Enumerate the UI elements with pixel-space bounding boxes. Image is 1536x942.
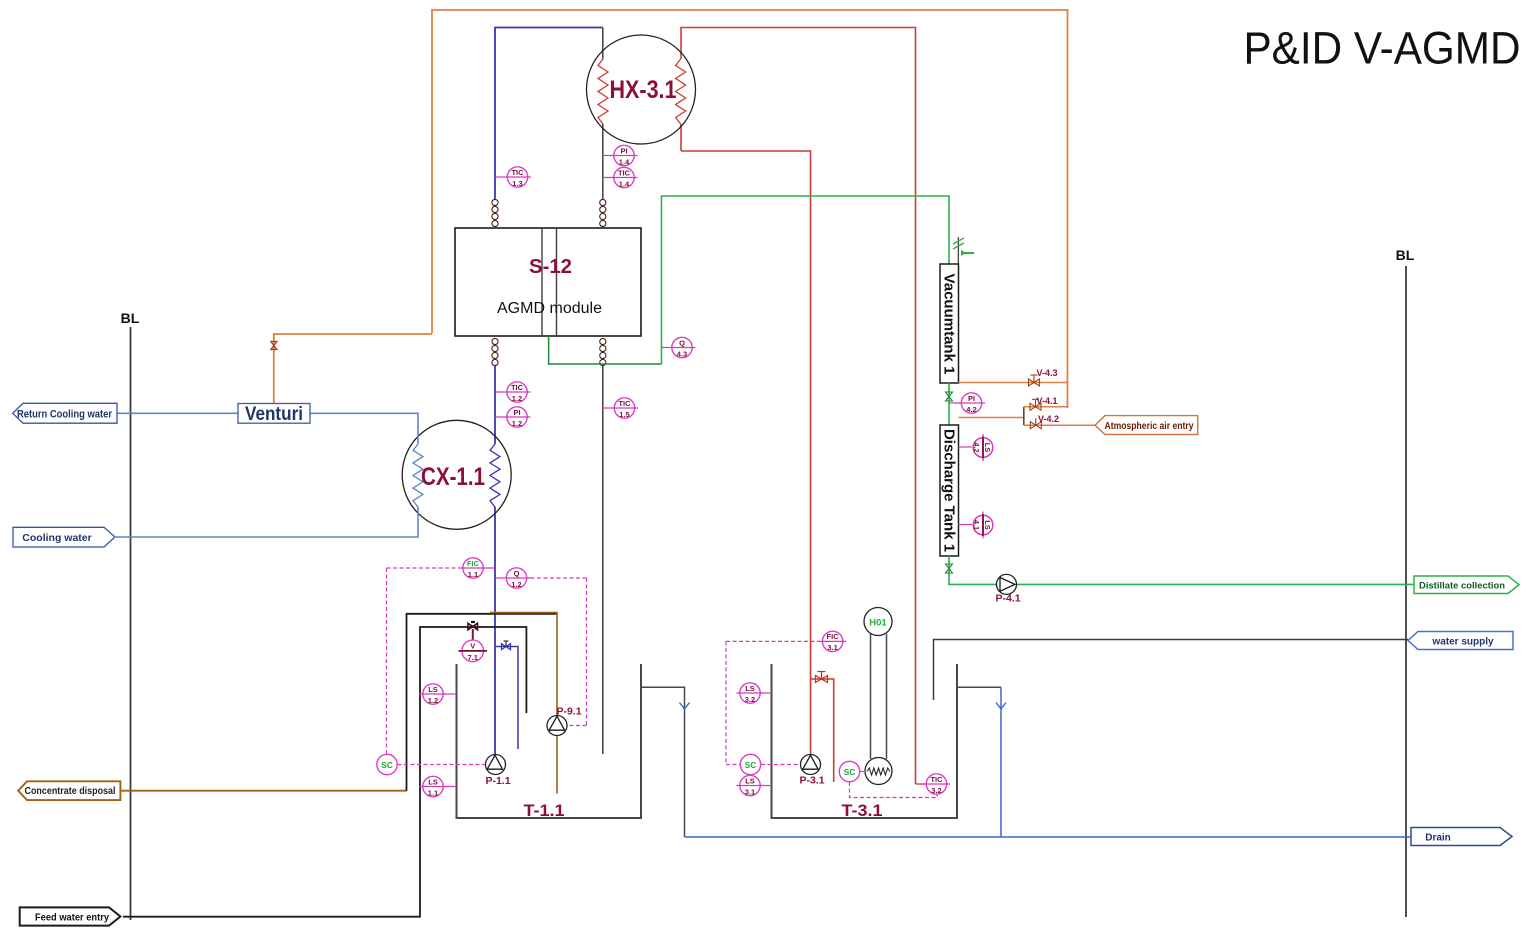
svg-text:Discharge Tank 1: Discharge Tank 1: [941, 429, 958, 552]
svg-text:TIC: TIC: [618, 399, 631, 408]
vacuum vent symbol: [953, 237, 974, 264]
svg-text:3.2: 3.2: [931, 786, 941, 795]
instrument LS 1.1: [420, 776, 457, 797]
node flow arrow T-1.1 overflow: [680, 703, 690, 710]
flag Return Cooling water: [13, 403, 117, 423]
svg-text:PI: PI: [620, 146, 627, 155]
instrument SC heater controller 3: [839, 761, 865, 781]
svg-text:FIC: FIC: [467, 559, 480, 568]
svg-text:CX-1.1: CX-1.1: [421, 463, 485, 491]
svg-text:P-9.1: P-9.1: [556, 706, 581, 718]
svg-text:4.2: 4.2: [966, 405, 976, 414]
instrument Q 4.3: [662, 337, 696, 358]
tank T-1.1: [456, 664, 643, 818]
svg-text:PI: PI: [968, 394, 975, 403]
svg-text:3.1: 3.1: [745, 787, 755, 796]
flag Feed water entry: [20, 907, 121, 925]
wire green discharge to P-4.1 and distillate: [949, 556, 1415, 584]
svg-text:Q: Q: [679, 338, 685, 347]
svg-text:1.5: 1.5: [619, 410, 629, 419]
instrument LS 3.1: [737, 775, 772, 796]
svg-text:BL: BL: [121, 310, 140, 326]
svg-text:P-1.1: P-1.1: [485, 775, 510, 787]
svg-text:T-3.1: T-3.1: [842, 801, 883, 820]
instrument SC pump controller 2: [740, 754, 760, 774]
svg-text:HX-3.1: HX-3.1: [610, 76, 677, 104]
valve green below discharge tank: [946, 564, 953, 573]
svg-text:Venturi: Venturi: [245, 404, 303, 425]
wire concentrate disposal line brown: [121, 790, 407, 792]
wire orange V-4.1 line: [959, 417, 1025, 419]
svg-text:1.1: 1.1: [468, 570, 478, 579]
wire orange vacuumtank bottom to V-4.3: [959, 382, 1068, 384]
wire T-1.1 overflow to drain: [641, 687, 685, 837]
svg-text:AGMD module: AGMD module: [497, 300, 602, 317]
svg-text:Return Cooling water: Return Cooling water: [17, 408, 113, 420]
svg-text:SC: SC: [745, 760, 757, 770]
heater H01: [864, 608, 892, 785]
heat-exchanger HX-3.1: [587, 35, 696, 144]
svg-text:TIC: TIC: [511, 168, 524, 177]
flag Atmospheric air entry: [1095, 416, 1198, 435]
svg-text:3.2: 3.2: [745, 695, 755, 704]
wire blue pump suction branch with valve: [495, 647, 518, 750]
svg-text:SC: SC: [844, 767, 856, 777]
coil port top-right of S-12: [600, 199, 606, 226]
wire red hot loop to P-3.1: [681, 151, 811, 755]
pump P-9.1: [547, 706, 582, 736]
wire green permeate S-12 to vacuumtank: [549, 336, 662, 364]
flag water supply: [1408, 632, 1513, 650]
valve V-4.1: [1030, 399, 1041, 410]
svg-text:V-4.2: V-4.2: [1038, 414, 1059, 424]
svg-text:LS: LS: [745, 776, 755, 785]
wire BL left battery-limit line: [130, 327, 132, 920]
svg-text:1.2: 1.2: [511, 580, 521, 589]
svg-text:LS: LS: [983, 520, 992, 530]
wire orange line to Venturi: [274, 334, 432, 404]
instrument PI 1.4: [603, 145, 638, 166]
svg-text:SC: SC: [381, 760, 393, 770]
svg-text:Feed water entry: Feed water entry: [35, 911, 109, 923]
svg-text:water supply: water supply: [1431, 637, 1494, 648]
component Venturi: [238, 404, 310, 425]
tank Discharge Tank 1: [940, 425, 959, 556]
wire green between tanks: [948, 383, 950, 425]
valve V-4.2: [1030, 418, 1041, 429]
svg-text:Atmospheric air entry: Atmospheric air entry: [1105, 421, 1194, 432]
svg-text:LS: LS: [428, 685, 438, 694]
pump P-1.1: [485, 755, 510, 788]
node flow arrow T-3.1 overflow: [996, 703, 1006, 710]
instrument TIC 1.3: [495, 167, 531, 188]
heat-exchanger CX-1.1: [402, 420, 511, 529]
wire concentrate riser black: [407, 614, 558, 791]
svg-text:LS: LS: [983, 443, 992, 453]
svg-text:1.4: 1.4: [619, 179, 630, 188]
flag Drain: [1411, 828, 1512, 846]
wire BL right battery-limit line: [1405, 266, 1407, 917]
tank Vacuumtank 1: [940, 264, 959, 383]
wire light blue return cooling water line: [117, 412, 238, 414]
valve green between tanks: [946, 392, 953, 401]
svg-text:P-4.1: P-4.1: [995, 593, 1020, 605]
instrument TIC 1.4: [603, 167, 638, 188]
wire orange vacuum line top: [432, 10, 1068, 408]
valve V-4.3: [1029, 375, 1040, 386]
svg-text:Concentrate disposal: Concentrate disposal: [25, 786, 116, 797]
svg-text:1.2: 1.2: [428, 696, 438, 705]
svg-text:S-12: S-12: [529, 256, 572, 278]
svg-text:1.4: 1.4: [619, 157, 630, 166]
valve red branch valve: [816, 672, 828, 683]
valve blue suction valve: [502, 641, 511, 650]
valve V-7.1 on feed line: [468, 622, 478, 640]
svg-text:4.2: 4.2: [972, 442, 981, 452]
wire concentrate to P-9.1 brown: [490, 613, 557, 794]
wire feed water line: [123, 627, 526, 917]
svg-text:FIC: FIC: [827, 632, 840, 641]
instrument LS 4.2 rotated: [972, 434, 993, 461]
instrument TIC 1.5: [603, 398, 638, 419]
svg-text:7.1: 7.1: [467, 653, 477, 662]
svg-text:V: V: [470, 642, 475, 651]
pump P-3.1: [799, 755, 824, 787]
AGMD module S-12 box: [455, 228, 641, 336]
svg-text:V-4.1: V-4.1: [1036, 396, 1057, 406]
instrument Q 1.2: [495, 568, 531, 589]
svg-text:BL: BL: [1396, 247, 1415, 263]
wire red hot loop upper: [681, 28, 916, 785]
svg-text:Drain: Drain: [1425, 833, 1451, 844]
svg-text:T-1.1: T-1.1: [524, 801, 565, 820]
svg-text:V-4.3: V-4.3: [1036, 368, 1057, 378]
svg-text:3.1: 3.1: [827, 643, 837, 652]
wire T-3.1 overflow to drain: [957, 686, 1001, 688]
instrument V 7.1: [459, 640, 488, 662]
wire dashed FIC1.1 signal: [387, 568, 938, 798]
svg-text:TIC: TIC: [618, 168, 631, 177]
svg-text:H01: H01: [869, 618, 887, 629]
wire drain header: [685, 836, 1412, 838]
svg-text:TIC: TIC: [511, 383, 524, 392]
svg-text:1.3: 1.3: [512, 179, 522, 188]
svg-text:Distillate collection: Distillate collection: [1419, 580, 1505, 591]
wire dark blue from S-12 bottom through CX to P-1.1: [494, 366, 496, 444]
wire red branch into tank T-3.1: [811, 679, 834, 782]
svg-text:TIC: TIC: [930, 775, 943, 784]
wire blue hot feed from S-12 top to HX: [495, 28, 603, 201]
instrument PI 4.2: [949, 393, 985, 414]
svg-text:4.3: 4.3: [677, 349, 687, 358]
wire red stub to TIC 3.2: [916, 783, 927, 785]
instrument LS 1.2: [420, 684, 457, 705]
instrument TIC 3.2: [923, 774, 950, 795]
flag Concentrate disposal: [18, 781, 120, 800]
svg-text:P-3.1: P-3.1: [799, 775, 824, 787]
coil port bottom-right of S-12: [600, 338, 606, 365]
svg-text:Vacuumtank 1: Vacuumtank 1: [941, 274, 958, 375]
wire water supply line: [934, 640, 1409, 701]
instrument PI 1.2: [495, 407, 531, 428]
valve on venturi vacuum line: [271, 342, 277, 350]
pump P-4.1: [995, 574, 1020, 604]
flag Cooling water: [13, 527, 115, 547]
wire dark line S-12 bottom into tank T-1.1: [602, 366, 604, 754]
instrument SC pump controller 1: [377, 754, 397, 774]
tank T-3.1: [771, 664, 959, 818]
svg-text:PI: PI: [513, 408, 520, 417]
coil port bottom-left of S-12: [492, 338, 498, 365]
svg-text:P&ID V-AGMD: P&ID V-AGMD: [1244, 23, 1521, 74]
wire orange V-4.2 line to atmospheric air entry: [1024, 424, 1095, 426]
svg-text:Q: Q: [514, 569, 520, 578]
svg-text:Cooling water: Cooling water: [22, 532, 91, 544]
instrument FIC 1.1: [459, 558, 495, 579]
wire dark return line HX to S-12: [602, 28, 604, 60]
coil port top-left of S-12: [492, 199, 498, 226]
flag Distillate collection: [1414, 576, 1519, 594]
instrument LS 4.1 rotated: [972, 512, 993, 539]
svg-text:4.1: 4.1: [972, 520, 981, 530]
svg-text:LS: LS: [428, 777, 438, 786]
svg-text:1.1: 1.1: [428, 788, 438, 797]
svg-text:LS: LS: [745, 684, 755, 693]
instrument LS 3.2: [737, 683, 772, 704]
instrument TIC 1.2: [495, 382, 531, 403]
instrument FIC 3.1: [819, 631, 847, 652]
svg-text:1.2: 1.2: [512, 419, 522, 428]
svg-text:1.2: 1.2: [512, 394, 522, 403]
